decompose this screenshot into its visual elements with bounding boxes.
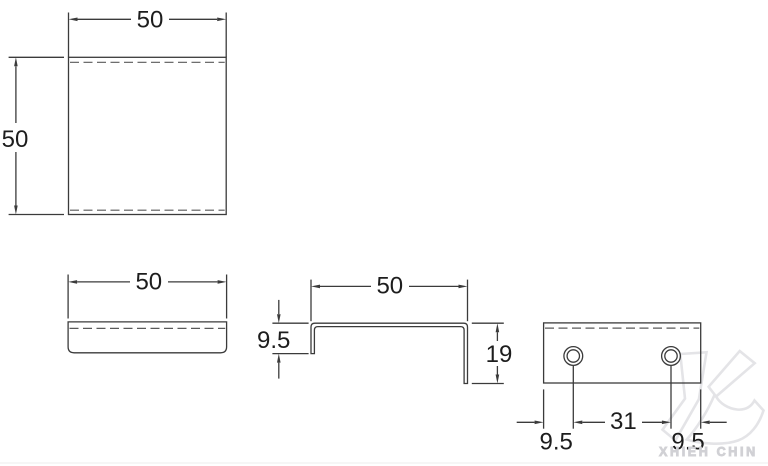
bottom view: hidden (dashed) line [545,327,699,329]
dim 9.5 (hole to right edge): leader + arrow [710,421,727,423]
top view: upper hidden (dashed) line [70,61,225,63]
dim 50 (channel width): extension lines [310,280,312,322]
top view: lower hidden (dashed) line [70,209,225,211]
dim 9.5 (left edge to hole): leader + arrow [517,421,535,423]
svg-text:XHIEH CHIN: XHIEH CHIN [659,445,758,459]
dim 50 (channel width): dimension line [320,285,371,287]
watermark logo hook band [687,396,764,444]
svg-text:19: 19 [486,341,513,368]
watermark logo diagonal band [709,351,755,397]
svg-text:50: 50 [376,273,403,300]
dims below plate: extension lines [572,366,574,429]
bottom view: right hole inner circle [665,350,677,362]
bottom view: plate outline [544,323,701,383]
dim 9.5 (left flange height): arrow leaders [278,300,280,314]
dim 50 (top view height): dimension line [15,66,17,123]
dim 31 (hole spacing): dimension line [582,421,605,423]
dim 50 (top view height): extension lines [9,56,64,58]
bottom view: left hole outer circle [564,347,583,366]
svg-text:31: 31 [610,408,637,435]
dim 50 (front view width): extension lines [67,275,69,319]
dim 50 (top view width): dimension line [78,18,132,20]
faint page boundary line [0,462,768,464]
bottom view: left hole inner circle [567,350,579,362]
dim 50 (top view width): extension lines [68,13,70,58]
top view: square outline [69,57,227,214]
dim 9.5 (left flange height): extension lines [272,322,308,324]
watermark logo stem band [663,352,707,440]
dim 19 (right leg height): extension lines [472,322,504,324]
svg-text:50: 50 [2,126,29,153]
dim 19 (right leg height): arrow leaders [496,332,498,341]
svg-text:9.5: 9.5 [257,327,290,354]
front view: flat bar outline [68,322,227,353]
svg-text:50: 50 [137,7,164,34]
side view: U-channel profile outline [311,323,468,383]
dim 50 (front view width): dimension line [77,281,130,283]
svg-text:9.5: 9.5 [540,428,573,455]
bottom view: right hole outer circle [662,347,681,366]
svg-text:50: 50 [135,269,162,296]
front view: hidden (dashed) line [70,327,226,329]
